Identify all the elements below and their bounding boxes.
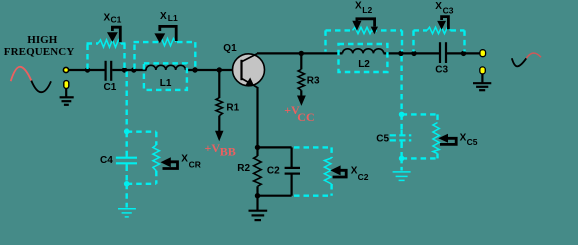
svg-text:FREQUENCY: FREQUENCY [4, 46, 75, 58]
C4 drop wire (dashed) [125, 72, 127, 130]
X_C2 zigzag [324, 158, 331, 184]
svg-text:L2: L2 [358, 59, 370, 70]
svg-text:R1: R1 [226, 103, 239, 114]
L1 inner dashed box [144, 63, 187, 90]
svg-text:C4: C4 [100, 155, 113, 166]
capacitor C5 (cyan) [390, 135, 412, 140]
input terminal top [63, 67, 68, 72]
input label HIGH FREQUENCY [4, 34, 75, 58]
svg-text:X: X [355, 1, 362, 12]
capacitor C2 branch [258, 147, 292, 195]
X_L2 zigzag [353, 27, 372, 33]
X_C5 zigzag [433, 123, 439, 154]
emitter wire down [256, 87, 258, 156]
svg-text:CR: CR [189, 160, 201, 170]
node emitter/C2 top [255, 145, 260, 150]
X_C2 reactance box (dashed) [294, 147, 332, 195]
output terminal top [480, 50, 486, 57]
svg-text:X: X [181, 154, 188, 165]
node (junction dot) [85, 67, 90, 72]
ground (emitter) [249, 211, 268, 220]
node C3 box left [411, 51, 416, 56]
transistor Q1 [233, 53, 265, 87]
X_CR pointer arrow [161, 157, 178, 168]
svg-text:C1: C1 [104, 82, 117, 93]
resistor R2 [254, 156, 262, 186]
input terminal bottom [64, 81, 69, 89]
X_C1 reactance box (dashed) [87, 44, 126, 70]
svg-text:C2: C2 [358, 172, 369, 182]
X_C3 zigzag [427, 27, 451, 34]
node R3 tap [299, 51, 304, 56]
node C4 bottom (cyan) [124, 181, 130, 187]
X_L2 pointer arrow [352, 19, 378, 34]
capacitor C4 (cyan) [116, 158, 137, 164]
inductor L1 [146, 65, 186, 70]
node C3 box right [461, 51, 466, 56]
svg-text:C5: C5 [376, 134, 389, 145]
X_CR zigzag [153, 145, 160, 171]
X_C3 reactance box (dashed) [414, 30, 465, 51]
X_C2 pointer arrow [330, 165, 346, 177]
X_L1 pointer arrow [154, 26, 176, 43]
resistor R3 [298, 53, 304, 97]
node [122, 67, 127, 72]
node [217, 67, 222, 72]
wire C1 to L1 [112, 69, 146, 71]
node C2 bottom [255, 193, 260, 198]
X_L2 outer reactance box (dashed) [326, 30, 403, 51]
output terminal bottom [480, 67, 486, 74]
C5 drop wire (dashed) [400, 56, 402, 113]
svg-text:HIGH: HIGH [27, 34, 57, 46]
svg-text:C5: C5 [467, 137, 478, 147]
capacitor C1 [106, 61, 112, 81]
collector rail [257, 52, 439, 54]
X_C1 zigzag [98, 40, 121, 47]
svg-text:X: X [160, 11, 167, 22]
svg-text:X: X [460, 132, 467, 143]
ground (input) [60, 88, 74, 104]
L2 inner dashed box [339, 44, 388, 72]
X_C1 pointer arrow [107, 27, 120, 42]
svg-text:X: X [104, 13, 111, 24]
C5 reactance box (dashed) [402, 114, 438, 158]
svg-text:L1: L1 [160, 78, 172, 89]
svg-text:+V: +V [205, 141, 221, 155]
svg-text:CC: CC [297, 110, 314, 124]
X_L1 zigzag [159, 38, 176, 45]
svg-text:L2: L2 [362, 5, 372, 15]
ground C4 (cyan dashed) [125, 184, 127, 208]
svg-text:C3: C3 [435, 65, 448, 76]
wire L1 to Q1 [186, 69, 241, 71]
node C4 top (cyan) [124, 129, 130, 135]
wire input to C1 [69, 69, 105, 71]
svg-text:C2: C2 [267, 166, 280, 177]
svg-text:L1: L1 [168, 13, 178, 23]
svg-text:BB: BB [220, 145, 236, 159]
resistor R1 [216, 70, 223, 133]
svg-text:C1: C1 [111, 14, 122, 24]
svg-text:X: X [435, 1, 442, 12]
svg-text:R2: R2 [237, 163, 250, 174]
C4 reactance box (dashed) [127, 132, 157, 184]
input sine wave [11, 67, 51, 92]
node [131, 67, 136, 72]
ground C5 (cyan dashed) [400, 158, 402, 170]
wire R2 bottom to ground [256, 186, 258, 210]
node [192, 67, 197, 72]
node C5 bottom (cyan) [399, 156, 405, 162]
X_C3 pointer arrow [437, 17, 448, 30]
node C5 top (cyan) [399, 112, 405, 118]
node C5 drop [398, 51, 403, 56]
ground (output) [473, 74, 491, 91]
svg-text:R3: R3 [307, 76, 320, 87]
X_L1 outer reactance box (dashed) [134, 42, 196, 69]
inductor L2 [343, 46, 384, 59]
X_C5 pointer arrow [438, 134, 456, 145]
capacitor C3 [440, 42, 446, 63]
svg-text:Q1: Q1 [223, 43, 237, 54]
output sine wave [512, 53, 541, 66]
svg-text:C3: C3 [443, 6, 454, 16]
